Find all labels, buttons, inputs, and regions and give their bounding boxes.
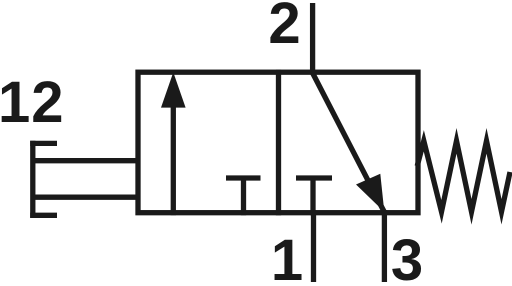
svg-text:3: 3 [391,228,423,286]
right position: diagonal arrow head [356,174,384,212]
svg-text:12: 12 [0,70,65,135]
port 2 line (top) [310,3,315,74]
left position: flow arrow shaft (1 to 2 passage) [171,103,176,215]
right position: blocked port T bar [296,175,332,180]
plunger rod lower line [33,195,140,200]
svg-text:1: 1 [271,228,303,286]
position divider [276,70,281,216]
push-button face plate [30,141,35,218]
return spring [417,141,510,212]
plunger rod upper line [33,158,140,163]
left position: blocked port T bar [226,175,261,180]
push-button bottom tick [30,213,57,218]
svg-text:2: 2 [268,0,300,56]
push-button top tick [30,141,57,146]
right position: diagonal passage 2 to 3 [313,73,385,212]
port 3 line (bottom right) [382,210,387,282]
valve body (two-position box) [138,72,418,213]
port 1 line (bottom left) [311,210,316,282]
right position: blocked port T vertical [310,178,315,215]
left position: flow arrow head [161,72,186,107]
left position: blocked port T vertical [241,178,246,215]
